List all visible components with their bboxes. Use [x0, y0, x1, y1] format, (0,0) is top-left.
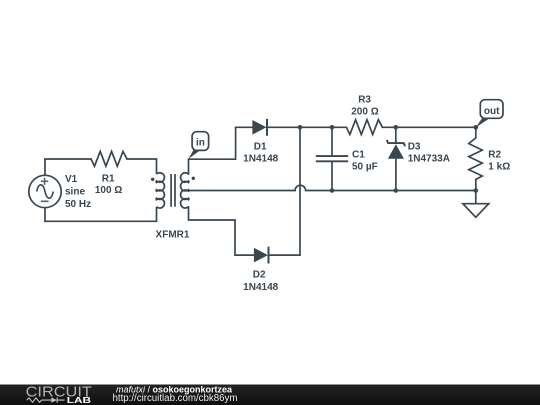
wire D1 cathode to junction [267, 126, 300, 128]
ground [463, 191, 489, 218]
svg-text:R1: R1 [102, 174, 115, 185]
svg-text:50 Hz: 50 Hz [65, 199, 91, 210]
svg-text:D3: D3 [408, 142, 421, 153]
svg-text:http://circuitlab.com/cbk86ym: http://circuitlab.com/cbk86ym [113, 393, 238, 404]
node junction D1/D2 output [298, 125, 303, 130]
node D3 anode junction [394, 188, 399, 193]
node C1 bottom junction [330, 188, 335, 193]
svg-text:out: out [484, 106, 500, 117]
resistor R2 [469, 127, 510, 190]
svg-text:1 kΩ: 1 kΩ [488, 162, 510, 173]
svg-text:LAB: LAB [67, 395, 91, 405]
node in (flag) [188, 132, 208, 159]
svg-text:R2: R2 [488, 150, 501, 161]
capacitor C1 [316, 127, 378, 190]
svg-text:D2: D2 [253, 269, 266, 280]
diode D2 [243, 247, 278, 293]
svg-text:100 Ω: 100 Ω [95, 185, 122, 196]
node out junction [474, 125, 479, 130]
wire junction to C1 tap and R3 [300, 126, 346, 128]
node R3/D3 junction [394, 125, 399, 130]
svg-text:sine: sine [65, 187, 85, 198]
wire D2 cathode up to D1 output junction [268, 127, 300, 255]
svg-text:R3: R3 [358, 95, 371, 106]
resistor R1 [91, 151, 127, 196]
wire R1 to XFMR1 primary [127, 158, 157, 160]
svg-text:50 µF: 50 µF [352, 161, 378, 172]
zener diode D3 [387, 127, 450, 190]
wire R3 to out node junction [382, 126, 475, 128]
svg-text:200 Ω: 200 Ω [351, 107, 378, 118]
voltage source V1 [29, 159, 91, 221]
resistor R3 [346, 95, 382, 135]
svg-text:1N4148: 1N4148 [243, 154, 278, 165]
node C1 top junction [330, 125, 335, 130]
transformer XFMR1 [151, 159, 195, 241]
node out (flag) [476, 100, 503, 128]
svg-text:in: in [196, 138, 205, 149]
wire ground rail with hop over D2 branch [189, 185, 476, 190]
logo waveform with diode [27, 397, 65, 402]
wire node in: secondary top to D1 anode [189, 127, 253, 174]
svg-text:1N4148: 1N4148 [243, 282, 278, 293]
wire XFMR1 bottom tap to D2 anode [189, 207, 254, 255]
svg-text:XFMR1: XFMR1 [156, 230, 190, 241]
footer bar [0, 385, 540, 405]
svg-text:D1: D1 [254, 142, 267, 153]
svg-text:V1: V1 [65, 174, 78, 185]
diode D1 [243, 119, 278, 165]
node R2 bottom junction [474, 188, 479, 193]
svg-text:1N4733A: 1N4733A [408, 154, 450, 165]
svg-text:C1: C1 [352, 150, 365, 161]
wire top-left from V1 to R1 [45, 158, 91, 160]
wire bottom-left V1 to XFMR1 primary [45, 220, 157, 222]
